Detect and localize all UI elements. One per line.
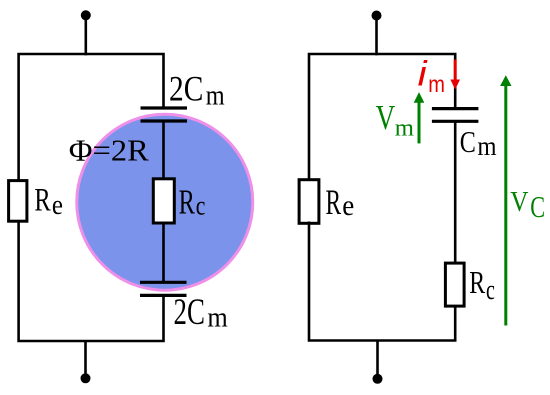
- wire left loop upper: [19, 54, 164, 181]
- wire right loop lower: [309, 222, 455, 341]
- svg-text:V: V: [510, 186, 528, 218]
- node top terminal left: [81, 10, 91, 20]
- arrow VC green: [500, 75, 511, 325]
- svg-text:Φ=2R: Φ=2R: [69, 133, 150, 167]
- svg-text:2C: 2C: [169, 69, 203, 109]
- svg-text:m: m: [395, 115, 415, 141]
- label Vm green: [376, 98, 415, 142]
- label Rc right: [469, 264, 495, 306]
- label im red: [418, 54, 445, 97]
- svg-text:m: m: [206, 79, 225, 111]
- svg-text:R: R: [34, 183, 50, 219]
- node top terminal right: [372, 11, 382, 21]
- capacitor 2Cm top plates: [141, 108, 188, 121]
- svg-text:m: m: [477, 131, 496, 161]
- arrow im current red: [450, 60, 460, 90]
- arrow Vm green: [414, 92, 425, 143]
- wire top stub left: [85, 15, 88, 55]
- svg-text:e: e: [342, 189, 354, 222]
- node bottom terminal right: [373, 374, 383, 384]
- label VC green: [510, 186, 545, 224]
- svg-text:C: C: [530, 189, 545, 224]
- label Re left: [34, 183, 63, 222]
- svg-text:c: c: [196, 190, 206, 220]
- resistor Re right: [299, 180, 319, 224]
- wire left loop lower: [19, 221, 164, 341]
- capacitor 2Cm bottom plates: [140, 282, 187, 295]
- membrane circle: [77, 114, 253, 290]
- capacitor Cm plates: [432, 109, 479, 122]
- label Rc left: [179, 182, 206, 221]
- svg-text:2C: 2C: [174, 292, 205, 333]
- svg-text:i: i: [418, 54, 428, 93]
- resistor Re left: [9, 181, 27, 222]
- label 2Cm bottom: [174, 292, 229, 334]
- wire Cm to Rc right: [454, 121, 457, 263]
- node bottom terminal left: [81, 373, 91, 383]
- svg-text:m: m: [428, 71, 445, 97]
- resistor Rc right: [445, 263, 464, 306]
- wire bottom stub right: [376, 341, 379, 379]
- wire Rc to bottom cap left: [162, 223, 165, 282]
- svg-text:e: e: [52, 189, 63, 221]
- wire right loop upper: [309, 54, 455, 180]
- svg-text:R: R: [326, 182, 342, 222]
- label 2Cm top: [169, 69, 225, 112]
- wire cap to Rc left: [162, 121, 165, 179]
- svg-text:C: C: [460, 124, 476, 159]
- svg-text:m: m: [207, 301, 228, 333]
- label Re right: [326, 182, 355, 222]
- svg-text:V: V: [376, 98, 396, 137]
- resistor Rc left: [153, 179, 174, 223]
- svg-text:R: R: [179, 182, 196, 221]
- label Cm right: [460, 124, 497, 161]
- wire top stub right: [375, 16, 378, 56]
- wire bottom stub left: [84, 341, 87, 378]
- svg-text:R: R: [469, 264, 485, 300]
- svg-text:c: c: [486, 275, 495, 306]
